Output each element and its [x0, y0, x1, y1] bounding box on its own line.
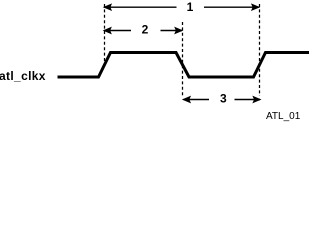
svg-text:3: 3 [220, 92, 227, 106]
dimension 3 label [220, 92, 227, 106]
signal label atl_clkx [0, 69, 46, 83]
svg-text:atl_clkx: atl_clkx [0, 69, 46, 83]
dashed extension line at second rising edge (x=259.5) [259, 4, 261, 96]
figure ID label ATL_01 [266, 111, 301, 122]
dimension 2 (high pulse width) line with outward arrowheads [104, 28, 182, 34]
dashed extension line at first rising edge (x=104.5) [104, 4, 106, 65]
dashed extension line at falling edge (x=182.5) [182, 22, 184, 96]
svg-text:ATL_01: ATL_01 [266, 111, 301, 122]
dimension 2 label [142, 23, 149, 37]
dimension 3 (low pulse width) line with outward arrowheads [183, 97, 260, 103]
svg-text:1: 1 [187, 0, 194, 14]
dimension 1 (clock period) line with outward arrowheads [104, 4, 259, 10]
waveform atl_clkx (low, rising edge, high, falling edge, low, rising edge, high) [58, 53, 310, 78]
svg-text:2: 2 [142, 23, 149, 37]
dimension 1 label [187, 0, 194, 14]
